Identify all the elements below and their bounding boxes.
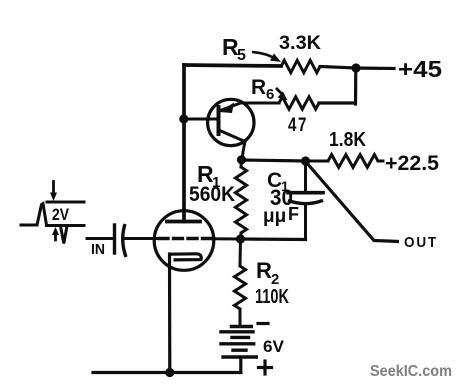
wire bottom rail bbox=[93, 371, 241, 374]
capacitor Cin straight plate bbox=[113, 225, 116, 253]
waveform negative spike bbox=[61, 226, 68, 244]
label +45 bbox=[398, 56, 442, 82]
tube V1 cathode bbox=[170, 254, 202, 260]
tube V1 grid dashes bbox=[159, 237, 211, 240]
wire node to 1.8K bbox=[306, 160, 329, 163]
wire 1.8K to +22.5 bbox=[378, 160, 383, 163]
waveform baseline left bbox=[21, 224, 37, 227]
value 110K bbox=[255, 286, 289, 308]
label battery plus bbox=[259, 361, 272, 374]
label C1 bbox=[267, 169, 289, 194]
resistor R5 bbox=[281, 60, 320, 72]
wire input lead bbox=[87, 237, 114, 240]
transistor Q1 base bar bbox=[217, 107, 221, 134]
transistor Q1 envelope bbox=[208, 99, 254, 145]
waveform down arrow bbox=[50, 182, 57, 202]
wire collector node to C1 node bbox=[242, 160, 306, 161]
value 30 bbox=[270, 185, 293, 210]
waveform upper level line bbox=[47, 201, 84, 204]
wire C1 bottom to grid node bbox=[241, 237, 306, 241]
waveform lower level line bbox=[47, 224, 85, 227]
wire C1 bottom lead bbox=[304, 205, 307, 240]
resistor R2 bbox=[234, 266, 245, 309]
resistor R6 bbox=[279, 97, 319, 109]
svg-text:560K: 560K bbox=[189, 183, 235, 206]
wire top rail (plate-base node to R5) bbox=[184, 65, 281, 66]
label R5 arrow bbox=[252, 52, 281, 62]
resistor R1 bbox=[235, 167, 246, 233]
wire grid right lead bbox=[212, 237, 241, 240]
svg-text:6V: 6V bbox=[263, 337, 285, 356]
tube V1 envelope bbox=[154, 211, 214, 271]
svg-text:IN: IN bbox=[91, 241, 105, 258]
svg-text:110K: 110K bbox=[255, 286, 289, 308]
capacitor C1 top plate bbox=[288, 191, 323, 195]
wire R2 to battery bbox=[239, 309, 242, 325]
value 1.8K bbox=[329, 129, 366, 151]
svg-text:μμ: μμ bbox=[263, 206, 286, 227]
label R1 bbox=[197, 161, 220, 191]
svg-text:OUT: OUT bbox=[404, 234, 438, 251]
wire OUT diagonal bbox=[306, 162, 399, 242]
transistor Q1 collector bbox=[219, 130, 246, 161]
capacitor Cin curved plate bbox=[123, 224, 126, 257]
wire grid left lead bbox=[126, 237, 156, 240]
label R6 bbox=[251, 76, 274, 103]
node collector-R1 junction bbox=[237, 155, 246, 164]
svg-text:SeekIC.com: SeekIC.com bbox=[370, 363, 452, 380]
wire plate-base vertical bbox=[182, 65, 186, 222]
svg-text:1.8K: 1.8K bbox=[329, 129, 366, 151]
value 47 bbox=[288, 115, 308, 136]
svg-text:+45: +45 bbox=[398, 56, 442, 82]
transistor Q1 emitter arrow bbox=[219, 103, 234, 114]
svg-text:+22.5: +22.5 bbox=[385, 152, 439, 175]
capacitor C1 bottom plate bbox=[288, 200, 323, 203]
node base junction bbox=[179, 114, 188, 123]
wire battery bottom lead bbox=[239, 357, 242, 373]
label OUT bbox=[404, 234, 438, 251]
wire cathode lead bbox=[168, 254, 172, 373]
node grid junction bbox=[236, 234, 245, 243]
svg-text:5: 5 bbox=[237, 47, 246, 64]
node cathode-bottom junction bbox=[165, 368, 174, 377]
transistor Q1 emitter bbox=[220, 103, 242, 111]
value 3.3K bbox=[279, 33, 321, 54]
svg-text:3.3K: 3.3K bbox=[279, 33, 321, 54]
svg-text:F: F bbox=[288, 204, 299, 224]
label R6 arrow bbox=[276, 88, 288, 101]
wire R6 to +45 riser bbox=[319, 101, 355, 104]
waveform positive spike bbox=[37, 204, 47, 226]
wire emitter to R6 bbox=[241, 102, 279, 105]
wire +45 stub bbox=[356, 66, 394, 70]
label R2 bbox=[256, 258, 279, 288]
svg-text:R: R bbox=[251, 76, 266, 99]
label +22.5 bbox=[385, 152, 439, 175]
svg-text:47: 47 bbox=[288, 115, 308, 136]
watermark SeekIC.com bbox=[370, 363, 452, 380]
wire riser to +45 node bbox=[354, 68, 357, 104]
waveform up arrow bbox=[52, 227, 59, 240]
tube V1 plate bbox=[167, 220, 200, 224]
resistor 1.8K bbox=[328, 155, 378, 168]
label IN bbox=[91, 241, 105, 258]
wire C1 top lead bbox=[304, 161, 307, 191]
wire grid node to R2 bbox=[239, 239, 243, 266]
label battery minus bbox=[258, 322, 268, 325]
value 560K bbox=[189, 183, 235, 206]
wire R1 top lead bbox=[240, 160, 244, 167]
node C1-1.8K junction bbox=[301, 156, 310, 165]
svg-text:R: R bbox=[256, 258, 272, 283]
value uuF bbox=[263, 204, 299, 227]
wire R5 to +45 node bbox=[320, 67, 356, 69]
node +45 junction bbox=[351, 63, 360, 72]
wire base lead bbox=[185, 118, 219, 121]
label R5 bbox=[222, 34, 246, 64]
svg-text:2V: 2V bbox=[52, 205, 70, 224]
battery B1 6V bbox=[221, 327, 256, 358]
wire R1 bottom lead bbox=[239, 233, 243, 239]
svg-text:6: 6 bbox=[266, 86, 274, 103]
value 6V bbox=[263, 337, 285, 356]
label 2V bbox=[52, 205, 70, 224]
